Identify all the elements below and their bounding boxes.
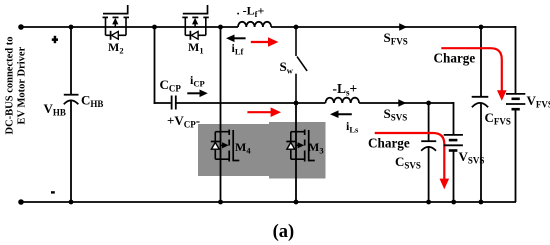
node M4 bottom junction: [218, 200, 223, 205]
arrowhead S_FVS direction: [399, 23, 407, 31]
svg-text:(a): (a): [273, 222, 295, 242]
current arrow i_CP: [187, 90, 208, 98]
label - polarity: [51, 191, 55, 193]
wire C_CP branch vertical: [154, 27, 156, 104]
node M3 bottom junction: [294, 200, 299, 205]
node C_HB bottom junction: [69, 200, 74, 205]
transistor M1: [182, 5, 209, 40]
red charge path FVS: [441, 48, 506, 101]
node C_SVS bottom junction: [426, 200, 431, 205]
node C_FVS bottom junction: [479, 200, 484, 205]
svg-text:DC-BUS connected to: DC-BUS connected to: [5, 37, 16, 135]
node C_FVS top junction: [479, 25, 484, 30]
wire second rail S_w node to L_s: [296, 102, 326, 104]
node C_CP top junction: [152, 25, 157, 30]
wire bottom rail: [21, 201, 516, 203]
wire C_CP branch horizontal: [154, 102, 171, 104]
current arrow i_Lf: [226, 35, 246, 43]
red charge path SVS: [375, 133, 449, 189]
wire V_SVS drop: [452, 102, 455, 104]
current arrow i_Ls: [330, 110, 352, 118]
svg-text:-Ls+: -Ls+: [333, 81, 358, 98]
svg-text:+VCP-: +VCP-: [167, 113, 200, 130]
gray box left (M4 region): [198, 124, 272, 176]
node M4 branch top junction: [218, 25, 223, 30]
label + polarity: [52, 36, 58, 43]
wire top rail left segment: [21, 26, 238, 28]
inductor L_f: [238, 22, 271, 27]
red arrow top (Lf charge direction): [251, 37, 279, 47]
battery V_FVS: [506, 26, 525, 202]
node C_SVS top junction: [426, 101, 431, 106]
node S_w bottom junction: [294, 101, 299, 106]
gray box right (M3 region): [269, 122, 326, 179]
inductor L_s: [326, 98, 360, 103]
capacitor C_FVS: [472, 27, 489, 202]
wire second rail L_s to V_SVS corner: [359, 102, 453, 104]
node DC-BUS + terminal: [18, 24, 24, 30]
node S_w top junction: [294, 25, 299, 30]
capacitor C_HB: [64, 27, 79, 202]
transistor M2: [103, 5, 130, 40]
svg-text:Charge: Charge: [368, 135, 410, 150]
wire V_FVS drop: [514, 26, 517, 28]
transistor M3: [286, 103, 315, 202]
wire second rail C_CP to S_w node: [177, 102, 297, 104]
node C_HB top junction: [69, 25, 74, 30]
battery V_SVS: [444, 102, 463, 202]
red arrow middle (CP charge direction): [247, 107, 281, 117]
svg-text:EV Motor Driver: EV Motor Driver: [16, 46, 27, 124]
arrowhead S_SVS direction: [398, 99, 406, 107]
capacitor C_SVS: [421, 103, 436, 202]
svg-text:Charge: Charge: [434, 50, 476, 65]
node V_SVS bottom junction: [451, 200, 456, 205]
switch S_w: [296, 27, 307, 103]
transistor M4: [211, 27, 240, 202]
node DC-BUS - terminal: [18, 199, 24, 205]
wire top rail right segment: [271, 26, 516, 28]
capacitor C_CP: [172, 96, 176, 110]
svg-text:. -Lf+: . -Lf+: [237, 4, 265, 20]
